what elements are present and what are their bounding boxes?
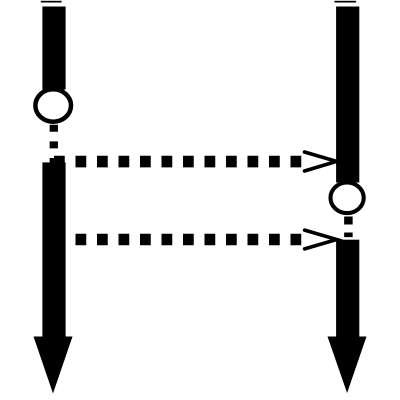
left lifeline lower bar: [42, 162, 65, 337]
message 2 open arrowhead: [305, 230, 337, 249]
left lifeline dotted gap: [50, 125, 58, 165]
dotted message line 1: [54, 156, 301, 168]
right lifeline arrowhead: [328, 337, 367, 394]
left lifeline upper bar: [42, 7, 65, 90]
left event circle: [35, 89, 71, 121]
right lifeline top tick: [335, 1, 357, 3]
right event circle: [331, 183, 364, 214]
message 1 open arrowhead: [305, 152, 337, 171]
right lifeline lower bar: [336, 240, 359, 338]
dotted message line 2: [54, 234, 301, 246]
right lifeline dotted gap: [344, 217, 353, 238]
left lifeline top tick: [41, 1, 62, 3]
right lifeline upper bar: [336, 7, 359, 183]
left lifeline arrowhead: [34, 337, 73, 394]
